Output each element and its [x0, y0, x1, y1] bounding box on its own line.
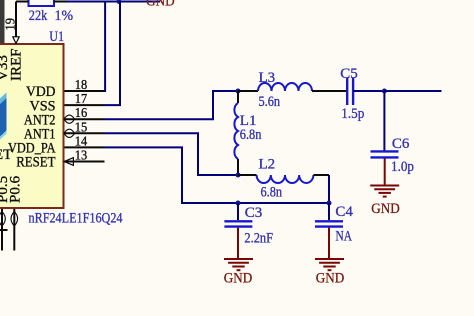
- svg-text:C3: C3: [245, 205, 263, 221]
- svg-text:P0.6: P0.6: [8, 175, 24, 203]
- svg-text:15: 15: [75, 120, 87, 135]
- pin 19 input arrow: [13, 37, 19, 44]
- wire node D down to C6: [383, 91, 385, 151]
- capacitor C6: [371, 151, 399, 157]
- svg-text:5.6n: 5.6n: [259, 94, 281, 110]
- node D junction dot: [382, 89, 387, 94]
- svg-text:RESET: RESET: [16, 155, 55, 171]
- svg-text:U1: U1: [49, 29, 64, 45]
- svg-text:GND: GND: [316, 270, 345, 286]
- svg-text:GND: GND: [224, 270, 253, 286]
- node A junction dot: [236, 89, 241, 94]
- IC U1 body nRF24LE1F16Q24: [0, 44, 64, 208]
- pin 13 RESET: [65, 161, 105, 163]
- pin 17 VSS: [65, 104, 105, 106]
- svg-text:GND: GND: [146, 0, 175, 10]
- pin 16 ANT2: [65, 118, 105, 120]
- wire VDD_PA to node C: [105, 147, 330, 203]
- svg-text:GND: GND: [371, 201, 400, 217]
- svg-text:13: 13: [75, 149, 87, 164]
- svg-text:6.8n: 6.8n: [240, 127, 262, 143]
- capacitor C5: [347, 78, 384, 105]
- wire node C down to C3: [237, 203, 239, 220]
- svg-text:1%: 1%: [55, 8, 74, 24]
- svg-text:19: 19: [4, 18, 19, 30]
- svg-text:14: 14: [75, 134, 87, 149]
- 3D cube logo: [0, 93, 7, 140]
- pin 20 V33 (cut at left edge): [0, 0, 5, 43]
- ground symbol C6: [370, 186, 399, 197]
- wire VSS to top: [105, 2, 121, 106]
- svg-text:C5: C5: [340, 66, 358, 82]
- pin 15 I/O arrows: [64, 129, 75, 137]
- ground lead C6: [384, 158, 386, 185]
- svg-text:6.8n: 6.8n: [261, 185, 283, 201]
- wire output right: [384, 90, 441, 92]
- wire L2 right down to node E: [328, 175, 330, 203]
- svg-text:17: 17: [75, 92, 87, 107]
- pin 14 VDD_PA: [65, 146, 105, 148]
- wire ANT1 to node B: [105, 133, 239, 175]
- svg-text:1.5p: 1.5p: [341, 106, 364, 122]
- junction dot top: [117, 0, 122, 4]
- capacitor C4: [315, 221, 343, 226]
- svg-text:L3: L3: [259, 70, 276, 86]
- ground lead C3: [237, 228, 239, 259]
- svg-text:IREF: IREF: [9, 48, 25, 81]
- svg-text:NA: NA: [336, 229, 353, 245]
- svg-text:16: 16: [75, 106, 87, 121]
- svg-text:ET: ET: [0, 147, 12, 163]
- pin P0.5 I/O arrows: [0, 212, 5, 227]
- resistor right lead: [54, 1, 66, 3]
- ground symbol C4: [315, 259, 344, 270]
- pin P0.5 bottom: [1, 209, 3, 251]
- svg-text:nRF24LE1F16Q24: nRF24LE1F16Q24: [29, 211, 123, 227]
- wire ANT2 to node A: [105, 91, 239, 119]
- resistor R 22k body: [29, 0, 55, 6]
- svg-text:C4: C4: [335, 204, 353, 220]
- wire node E down to C4: [328, 203, 330, 220]
- inductor L3: [238, 83, 346, 91]
- pin P0.6 bottom: [13, 209, 15, 251]
- node E junction dot (C4): [327, 201, 332, 206]
- svg-text:2.2nF: 2.2nF: [244, 231, 273, 247]
- svg-text:1.0p: 1.0p: [391, 159, 414, 175]
- ground symbol C3: [224, 259, 253, 270]
- svg-text:18: 18: [75, 78, 87, 93]
- capacitor C3: [224, 221, 252, 226]
- node B junction dot: [236, 173, 241, 178]
- wire VDD to top: [104, 2, 107, 92]
- pin 16 I/O arrows: [64, 115, 75, 123]
- svg-text:L2: L2: [259, 157, 276, 173]
- pin 13 input arrow: [64, 158, 73, 166]
- pin 18 VDD: [65, 90, 105, 92]
- pin 15 ANT1: [65, 132, 105, 134]
- pin P0.6 I/O arrows: [11, 212, 18, 227]
- svg-text:22k: 22k: [29, 8, 48, 24]
- node C junction dot (C3): [236, 201, 241, 206]
- inductor L2: [238, 175, 329, 183]
- ground lead C4: [328, 228, 330, 259]
- wire top GND net: [66, 1, 160, 3]
- inductor L1 (vertical): [234, 91, 238, 175]
- pin 19 IREF: vertical pin line: [15, 2, 17, 38]
- svg-text:C6: C6: [392, 136, 410, 152]
- wire stub near P0.5: [0, 229, 8, 231]
- resistor left lead: [16, 1, 29, 3]
